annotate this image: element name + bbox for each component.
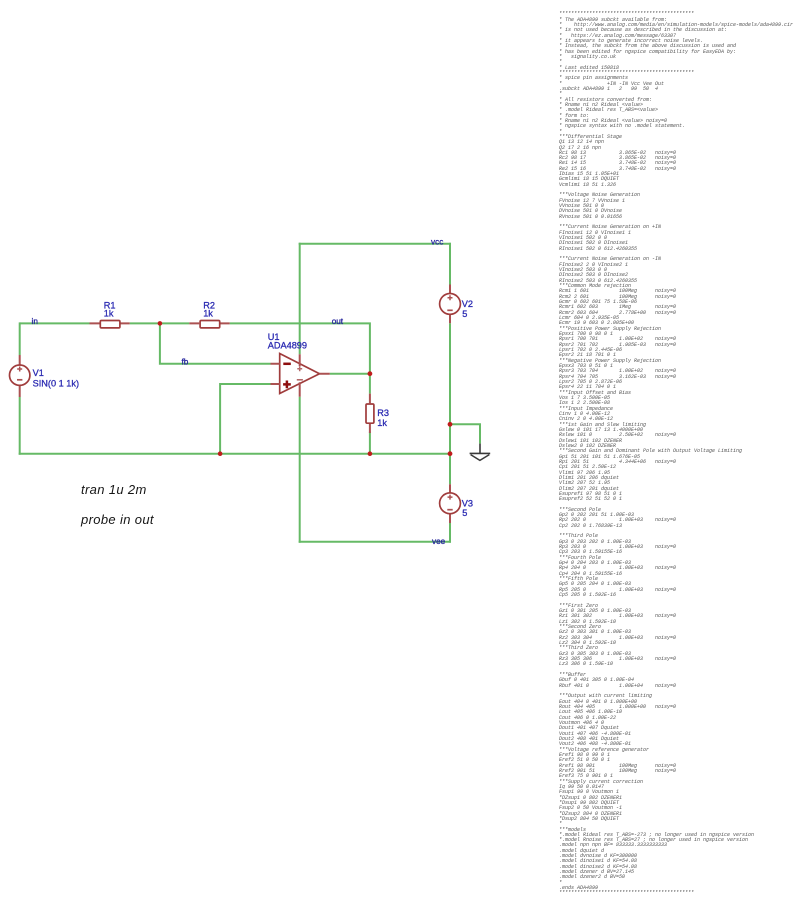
svg-text:V2: V2 bbox=[462, 299, 473, 309]
junction: right rail bottom rail crossing bbox=[448, 451, 453, 456]
wire: output junction down to R3 bbox=[369, 374, 371, 394]
wire: op-amp output to junction bbox=[330, 373, 370, 375]
svg-text:V1: V1 bbox=[33, 368, 44, 378]
wire: net fb, junction down and to inverting input bbox=[160, 323, 271, 363]
svg-text:in: in bbox=[32, 317, 39, 326]
resistor R2 bbox=[189, 321, 229, 328]
directive tran 1u 2m bbox=[81, 482, 147, 497]
wire: ground branch bbox=[450, 424, 480, 443]
svg-text:1k: 1k bbox=[104, 309, 114, 319]
svg-text:fb: fb bbox=[182, 357, 189, 366]
voltage source V1 bbox=[10, 355, 30, 397]
label V1 value bbox=[33, 368, 79, 389]
wire: non-inverting input to bottom rail bbox=[220, 384, 270, 454]
spice netlist text block bbox=[559, 12, 793, 896]
label V3 value bbox=[462, 499, 473, 519]
op-amp U1 power pin stubs bbox=[299, 354, 301, 396]
svg-text:5: 5 bbox=[462, 309, 467, 319]
wire: V1 bottom vertical bbox=[19, 397, 21, 455]
wire: right rail vcc corner to V2 bbox=[449, 243, 451, 285]
svg-text:vcc: vcc bbox=[431, 237, 443, 246]
junction: R3 bottom on rail bbox=[368, 451, 373, 456]
wire: net in, V1 top to R1 bbox=[20, 322, 90, 324]
wire: vcc rail top bbox=[299, 243, 451, 245]
svg-text:vee: vee bbox=[432, 537, 446, 546]
resistor R3 bbox=[366, 394, 374, 433]
junction: non-inverting to bottom rail bbox=[218, 451, 223, 456]
wire: V3 bottom to vee corner bbox=[449, 523, 451, 543]
resistor R1 bbox=[90, 321, 130, 328]
op-amp U1 triangle body bbox=[280, 354, 320, 394]
op-amp U1 negative supply marker bbox=[297, 379, 303, 381]
wire: V1 top vertical bbox=[19, 322, 21, 355]
label R3 value bbox=[377, 408, 389, 428]
junction: right rail ground tap bbox=[448, 422, 453, 427]
label U1 ADA4899 bbox=[268, 332, 307, 350]
wire: net out, R2 to corner and down to output junction bbox=[230, 323, 370, 373]
op-amp U1 inverting input minus sign bbox=[283, 363, 291, 366]
wire: vee rail bottom bbox=[299, 541, 451, 543]
wire: R1 to R2 segment bbox=[130, 322, 190, 324]
svg-text:SIN(0 1 1k): SIN(0 1 1k) bbox=[33, 378, 79, 388]
svg-text:1k: 1k bbox=[203, 309, 213, 319]
svg-text:5: 5 bbox=[462, 508, 467, 518]
op-amp U1 input and output pin stubs bbox=[271, 364, 330, 384]
svg-text:V3: V3 bbox=[462, 499, 473, 509]
wire: op-amp vcc pin vertical bbox=[299, 243, 301, 354]
svg-text:1k: 1k bbox=[377, 418, 387, 428]
voltage source V3 bbox=[440, 484, 461, 523]
junction: op-amp output node bbox=[368, 371, 373, 376]
svg-text:R3: R3 bbox=[377, 408, 389, 418]
op-amp U1 non-inverting input plus sign bbox=[283, 381, 291, 389]
voltage source V2 bbox=[440, 285, 461, 324]
wire: V2 bottom to ground junctions bbox=[449, 323, 451, 484]
op-amp U1 positive supply marker bbox=[297, 366, 302, 371]
ground bbox=[470, 444, 491, 461]
junction: R1/R2/fb node bbox=[158, 321, 163, 326]
wire: R3 bottom to rail bbox=[369, 432, 371, 455]
label V2 value bbox=[462, 299, 473, 319]
label R1 value bbox=[104, 300, 116, 318]
svg-text:ADA4899: ADA4899 bbox=[268, 341, 307, 351]
wire: bottom ground rail bbox=[19, 453, 450, 455]
label R2 value bbox=[203, 300, 215, 318]
directive probe in out bbox=[81, 512, 154, 527]
svg-text:out: out bbox=[332, 317, 344, 326]
wire: op-amp vee pin vertical crossing bottom rail bbox=[299, 397, 301, 543]
